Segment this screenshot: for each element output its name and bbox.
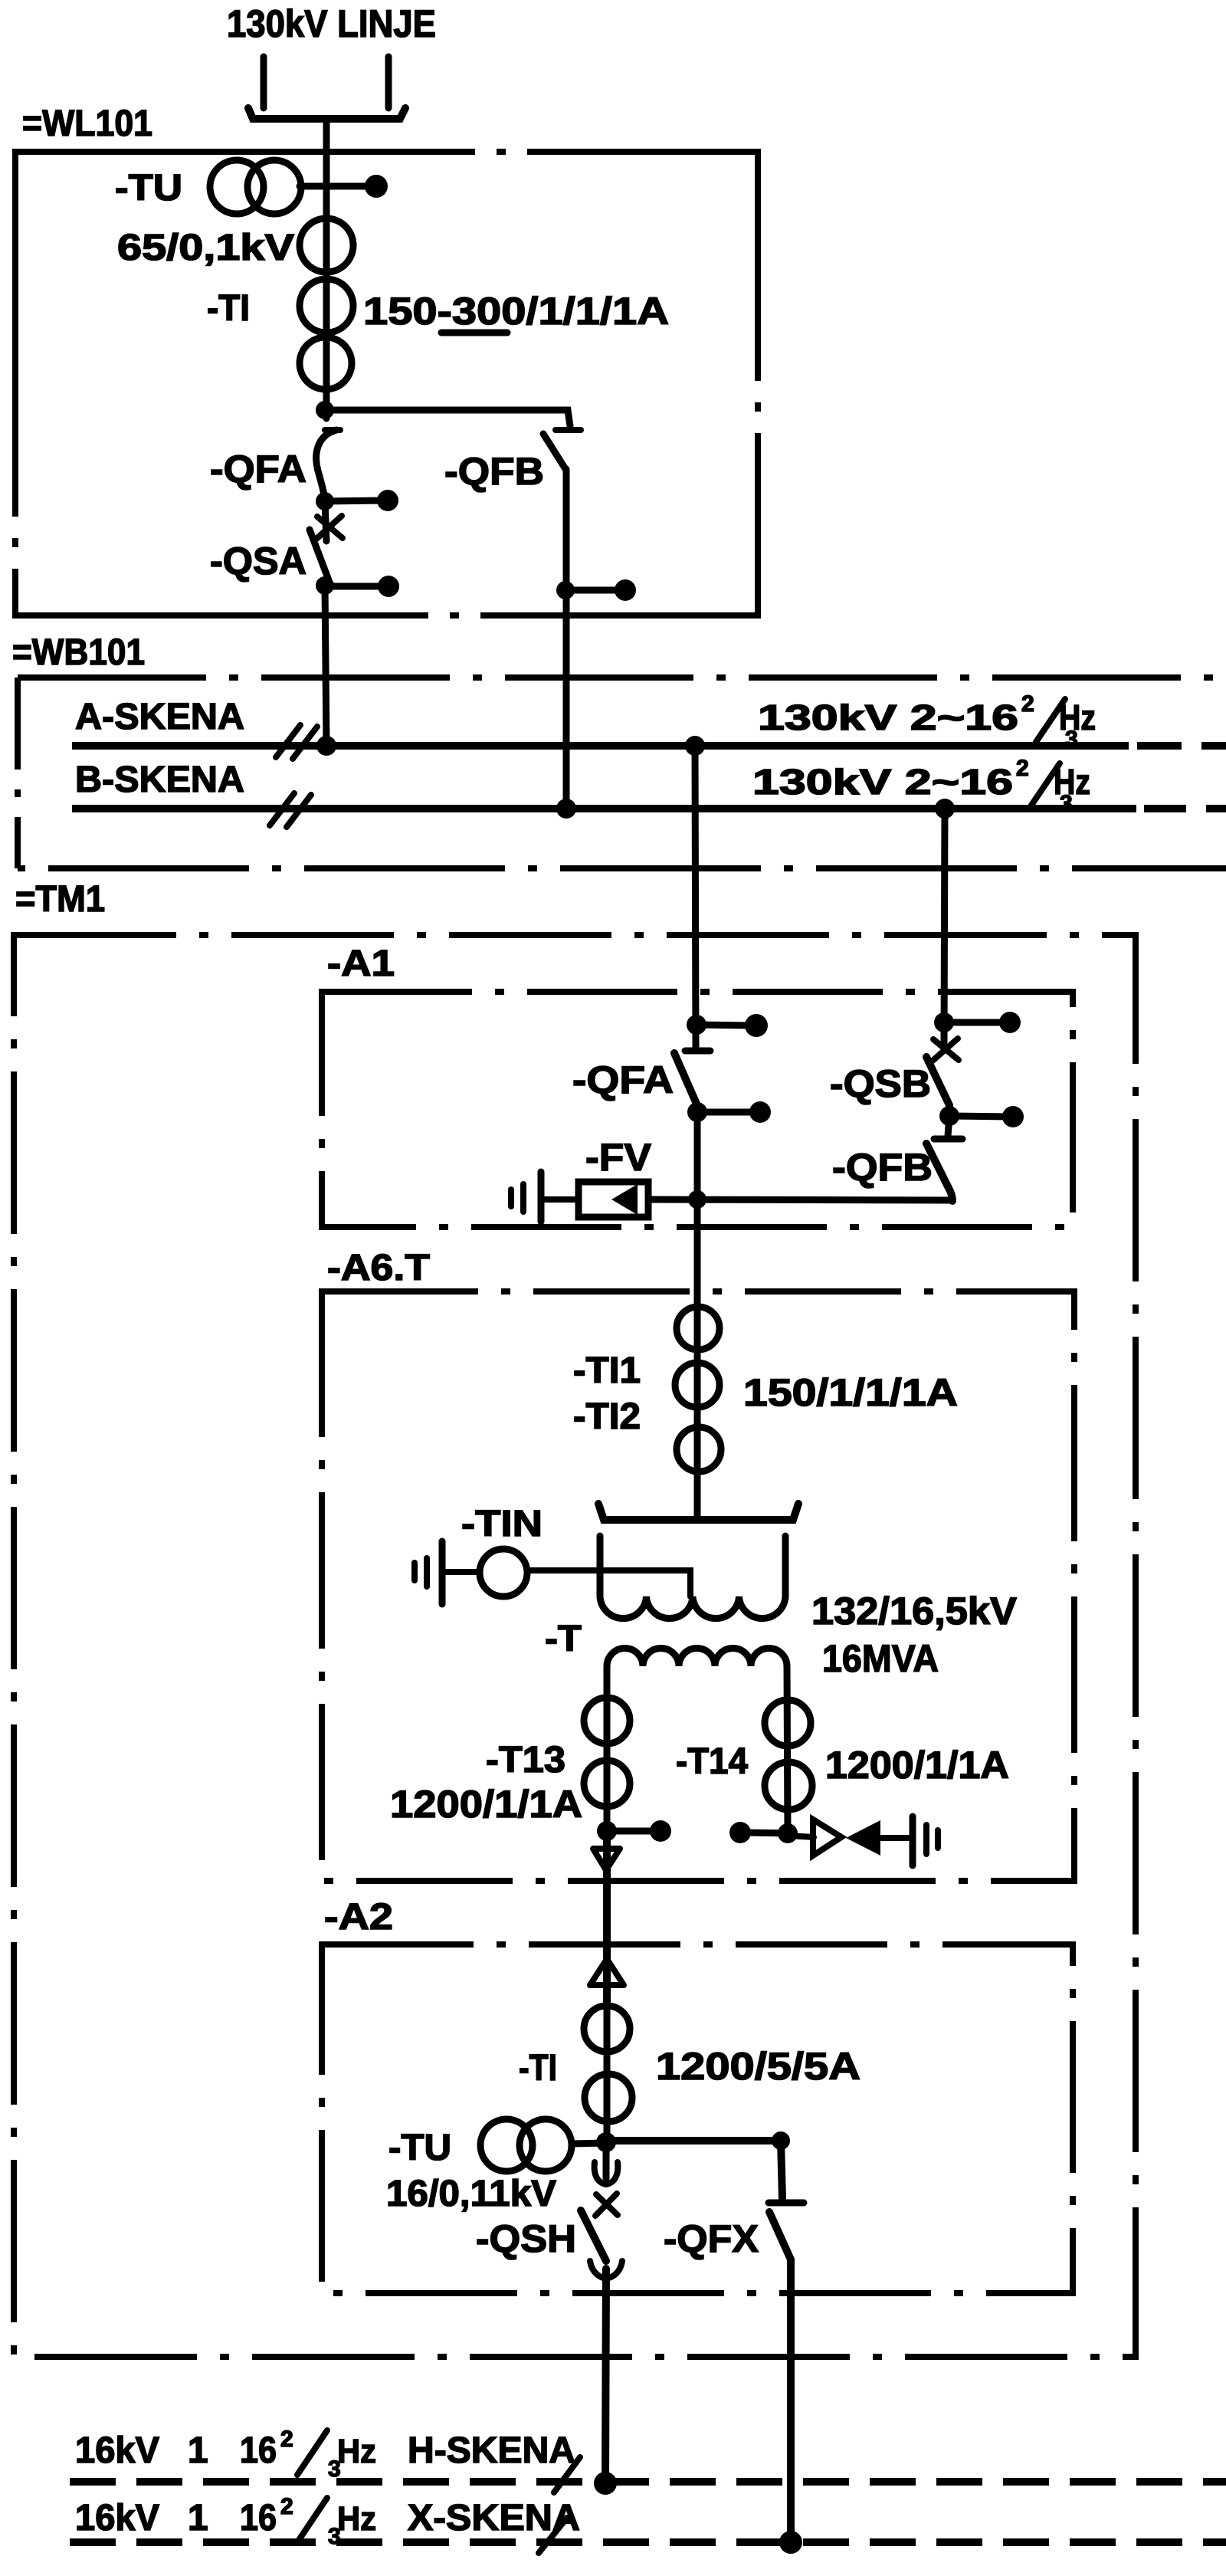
svg-text:B-SKENA: B-SKENA [75,760,244,800]
wire: QFX down to X-SKENA [787,2259,795,2542]
breaker -QFA (A1): blade [674,1053,699,1109]
ground (neutral earth) [439,1541,446,1604]
svg-text:Hz: Hz [1054,762,1090,802]
node: TU tap terminal dot [365,175,388,198]
breaker -QFX: blade [769,2212,791,2259]
svg-text:-A6.T: -A6.T [327,1248,430,1288]
breaker -QFB (A1): blade [926,1144,952,1201]
bay boundary box =WL101 [15,152,758,615]
node: A-SKENA feeder junction [685,736,705,756]
current transformer -TI1/-TI2 core 2 [675,1363,720,1407]
node: H-SKENA junction [594,2472,617,2495]
wire: QSA junction stub [325,583,383,590]
svg-text:1: 1 [188,2430,208,2471]
current transformer -TI1/-TI2 core 1 [677,1307,720,1350]
incoming line terminal bar right [385,57,392,108]
disconnector -QSB: blade [926,1057,949,1114]
wire: junction stub [607,1828,655,1835]
svg-text:2: 2 [280,2494,293,2519]
earthing switch -QSH: lower fork horns [590,2261,606,2279]
svg-text:16: 16 [240,2430,277,2471]
wire: spark gap to earth [880,1835,909,1841]
svg-text:=WB101: =WB101 [12,632,145,673]
wire: QFA junction stub [697,1109,756,1116]
svg-text:150-300/1/1/1A: 150-300/1/1/1A [363,290,669,333]
current transformer -TI1/-TI2 core 3 [677,1427,721,1472]
svg-text:130kV 2~16: 130kV 2~16 [758,697,1018,737]
incoming line terminal bar left [261,57,267,108]
transformer -T: primary entry bracket [598,1504,798,1520]
node: FV line junction on feeder [688,1190,706,1209]
svg-text:=TM1: =TM1 [15,879,105,920]
busbar section =WB101 boundary left edge [15,678,21,868]
wire: T13 leg down to A2 [603,1831,611,2007]
breaker -QFX: top contact bar [769,2200,804,2207]
wire: QSB junction stub [949,1116,1008,1117]
voltage transformer -TU (WL101): two overlapping circles [210,160,264,214]
wire: T14 junction stub left [745,1833,788,1833]
bay boundary box =TM1 [14,935,1136,2357]
transformer -T: primary winding right end [782,1536,789,1596]
wire: TU tap to line [572,2143,605,2144]
earthing switch -QSH: upper contact stem [603,2142,610,2178]
svg-text:-FV: -FV [585,1136,652,1179]
wire: TU tap to line [300,183,367,190]
disconnector -QSB: earth-switch X mark [933,1039,959,1060]
svg-text:130kV LINJE: 130kV LINJE [227,2,436,45]
withdrawable contact arrow pointing up [590,1959,624,1985]
node: TU junction on feeder [596,2132,616,2152]
current transformer -TI core 2 [300,279,353,333]
svg-text:-T14: -T14 [676,1741,748,1782]
wire: QSB junction down to QFB contact [948,1116,949,1136]
node: stub terminal dot [745,1014,768,1037]
wire: junction stub [697,1025,751,1025]
surge arrester -FV: earth electrode bars [538,1172,545,1222]
node: stub terminal dot [999,1012,1021,1033]
svg-text:65/0,1kV: 65/0,1kV [117,228,294,268]
svg-text:150/1/1/1A: 150/1/1/1A [743,1371,958,1414]
wire: QFB drop to B-SKENA [563,469,570,809]
svg-text:2: 2 [1016,756,1029,781]
svg-text:16kV: 16kV [75,2430,159,2471]
node: QFB junction [556,581,575,599]
svg-text:-TU: -TU [388,2128,451,2168]
transformer -T: primary winding scallops [600,1596,785,1619]
svg-text:1200/1/1A: 1200/1/1A [390,1783,582,1826]
current transformer -T13 core 2 [584,1761,630,1806]
node: stub terminal dot [377,490,398,511]
module box -A2 [322,1944,1073,2293]
svg-text:Hz: Hz [337,2433,376,2470]
current transformer -TI (A2) core 2 [585,2074,632,2122]
svg-text:-QFB: -QFB [832,1146,933,1189]
svg-text:-T13: -T13 [486,1740,565,1780]
node: QFA lower junction [316,492,334,510]
wire: primary neutral tap [527,1570,690,1596]
wire: QSH down to H-SKENA [605,2269,606,2482]
hash mark on X-SKENA [539,2518,567,2553]
svg-text:-A1: -A1 [327,943,395,984]
breaker -QFB (WL101): blade [543,434,565,469]
transformer -T: secondary winding scallops [607,1649,787,1667]
current transformer -T13 core 1 [584,1698,630,1744]
svg-text:Hz: Hz [1059,697,1096,737]
svg-text:16kV: 16kV [75,2498,159,2538]
svg-text:-TI: -TI [519,2048,557,2089]
earthing switch -QSH: blade [581,2210,606,2261]
svg-text:A-SKENA: A-SKENA [75,697,244,737]
wire: QSB top junction stub [944,1019,1005,1026]
node: feeder junction above -QFA (A1) [687,1015,706,1035]
line entry bracket [248,108,405,119]
wire: secondary right leg [787,1666,788,1833]
current transformer -T14 core 2 [765,1762,812,1810]
current transformer -TI core 3 [300,337,352,389]
busbar B-SKENA [72,805,1136,812]
svg-text:X-SKENA: X-SKENA [408,2498,580,2538]
node: QFX corner dot [772,2131,790,2150]
node: feeder junction above -QSB [934,1012,954,1032]
busbar A-SKENA [72,742,1129,750]
svg-text:=WL101: =WL101 [22,103,152,144]
svg-text:16MVA: 16MVA [822,1637,939,1680]
wire: A-SKENA feeder drop into -A1 [695,746,696,1048]
svg-text:H-SKENA: H-SKENA [408,2430,575,2471]
svg-text:-TI1: -TI1 [573,1350,641,1391]
current transformer -TI (A2) core 1 [584,2006,630,2052]
svg-text:2: 2 [1021,691,1034,717]
node: T14 leg junction [778,1823,798,1843]
svg-text:-TU: -TU [115,168,182,208]
underline under 300 [441,330,507,336]
transformer -T: primary winding left end [597,1536,604,1596]
wire: through A2 CTs to TU junction [604,2007,611,2142]
wire: earth to FV box [541,1196,579,1203]
module box -A1 [322,992,1073,1227]
wire: 130kV line drop from bracket to A-SKENA [323,122,330,418]
node: X-SKENA junction [779,2531,802,2554]
wire: through CTs to transformer [694,1308,701,1518]
breaker -QFA (WL101): top contact tick [325,427,340,433]
svg-text:16/0,11kV: 16/0,11kV [386,2174,556,2214]
node: T13 leg junction [597,1821,617,1841]
svg-text:-QSB: -QSB [830,1062,931,1105]
voltage transformer -TU (A2): two overlapping circles [480,2119,533,2171]
svg-text:-QFX: -QFX [664,2217,759,2260]
spark gap electrode left-pointing [846,1820,880,1856]
svg-text:2: 2 [280,2427,293,2452]
surge arrester -FV: body box [579,1182,648,1217]
wire: T14 junction to spark gap [788,1836,814,1837]
busbar section =WB101 boundary bottom edge [18,865,1226,871]
svg-text:1200/5/5A: 1200/5/5A [656,2045,860,2088]
neutral CT -TIN [480,1549,527,1596]
wire: QFA down through FV node into A6.T [694,1112,701,1308]
wire: junction across to -QFB branch [325,410,570,426]
busbar section =WB101 boundary top edge [18,674,1226,681]
withdrawable contact arrow pointing down [593,1849,620,1870]
svg-text:-TI: -TI [207,288,250,329]
svg-text:-TIN: -TIN [461,1504,543,1544]
earthing switch -QSH: X mark [596,2194,618,2215]
node: QSB lower junction [939,1106,959,1126]
node: stub terminal dot [1002,1106,1024,1127]
node: stub terminal dot [729,1822,751,1843]
earthing switch -QSH: upper fork horns [595,2162,606,2184]
svg-text:1200/1/1A: 1200/1/1A [825,1744,1009,1787]
svg-text:Hz: Hz [337,2500,376,2538]
breaker -QFA (WL101): blade [316,430,336,500]
hash marks on B-SKENA [270,793,294,825]
breaker -QFB (WL101): top contact tick [556,427,581,433]
svg-text:-QFB: -QFB [444,450,544,493]
busbar H-SKENA (dashed) [70,2478,1226,2486]
svg-text:132/16,5kV: 132/16,5kV [811,1590,1018,1633]
spark gap electrode right-pointing [813,1820,841,1856]
wire: TIN to earth [445,1569,480,1575]
wire: secondary left leg [604,1666,611,1831]
surge arrester -FV: arrow [611,1184,638,1215]
node: stub terminal dot [650,1820,671,1842]
svg-text:-QSH: -QSH [476,2217,576,2260]
svg-text:-QSA: -QSA [210,540,306,582]
svg-text:1: 1 [188,2498,208,2538]
svg-text:-QFA: -QFA [210,448,306,491]
wire: QFB junction stub [565,587,621,594]
wire: QFA junction stub [325,500,382,501]
svg-text:16: 16 [240,2498,277,2538]
disconnector -QSA: blade [310,530,329,580]
hash marks on A-SKENA [276,725,300,757]
wire: B-SKENA feeder drop into -A1 [944,809,945,1042]
svg-text:-T: -T [545,1619,582,1659]
breaker -QFB (A1): top contact bar [934,1136,962,1143]
node: stub terminal dot [615,579,636,601]
ground (spark gap earth) [910,1816,916,1866]
node: QFA lower junction [687,1102,707,1122]
hash mark on H-SKENA [554,2457,580,2492]
disconnector -QSA: earth-switch X mark [317,517,343,538]
current transformer -TI core 1 [300,218,353,272]
busbar X-SKENA (dashed) [70,2538,1226,2546]
svg-text:130kV 2~16: 130kV 2~16 [752,762,1013,802]
node: B-SKENA feeder junction [935,799,955,819]
wire: FV line across to QFB bottom [648,1199,952,1200]
module box -A6.T [322,1291,1074,1881]
wire: junction across to -QFX [606,2141,782,2199]
node: stub terminal dot [378,576,399,597]
node: QFB to B-SKENA junction [556,799,576,819]
node: WL101 line to A-SKENA junction [316,736,336,756]
svg-text:-TI2: -TI2 [573,1396,641,1437]
node: junction above -QFA [316,401,334,419]
node: QSA lower junction [316,576,334,595]
current transformer -T14 core 1 [765,1700,811,1746]
svg-text:-A2: -A2 [324,1897,393,1938]
breaker -QFA (A1): top contact bar [685,1048,710,1055]
node: stub terminal dot [749,1101,771,1123]
svg-text:-QFA: -QFA [572,1058,674,1101]
